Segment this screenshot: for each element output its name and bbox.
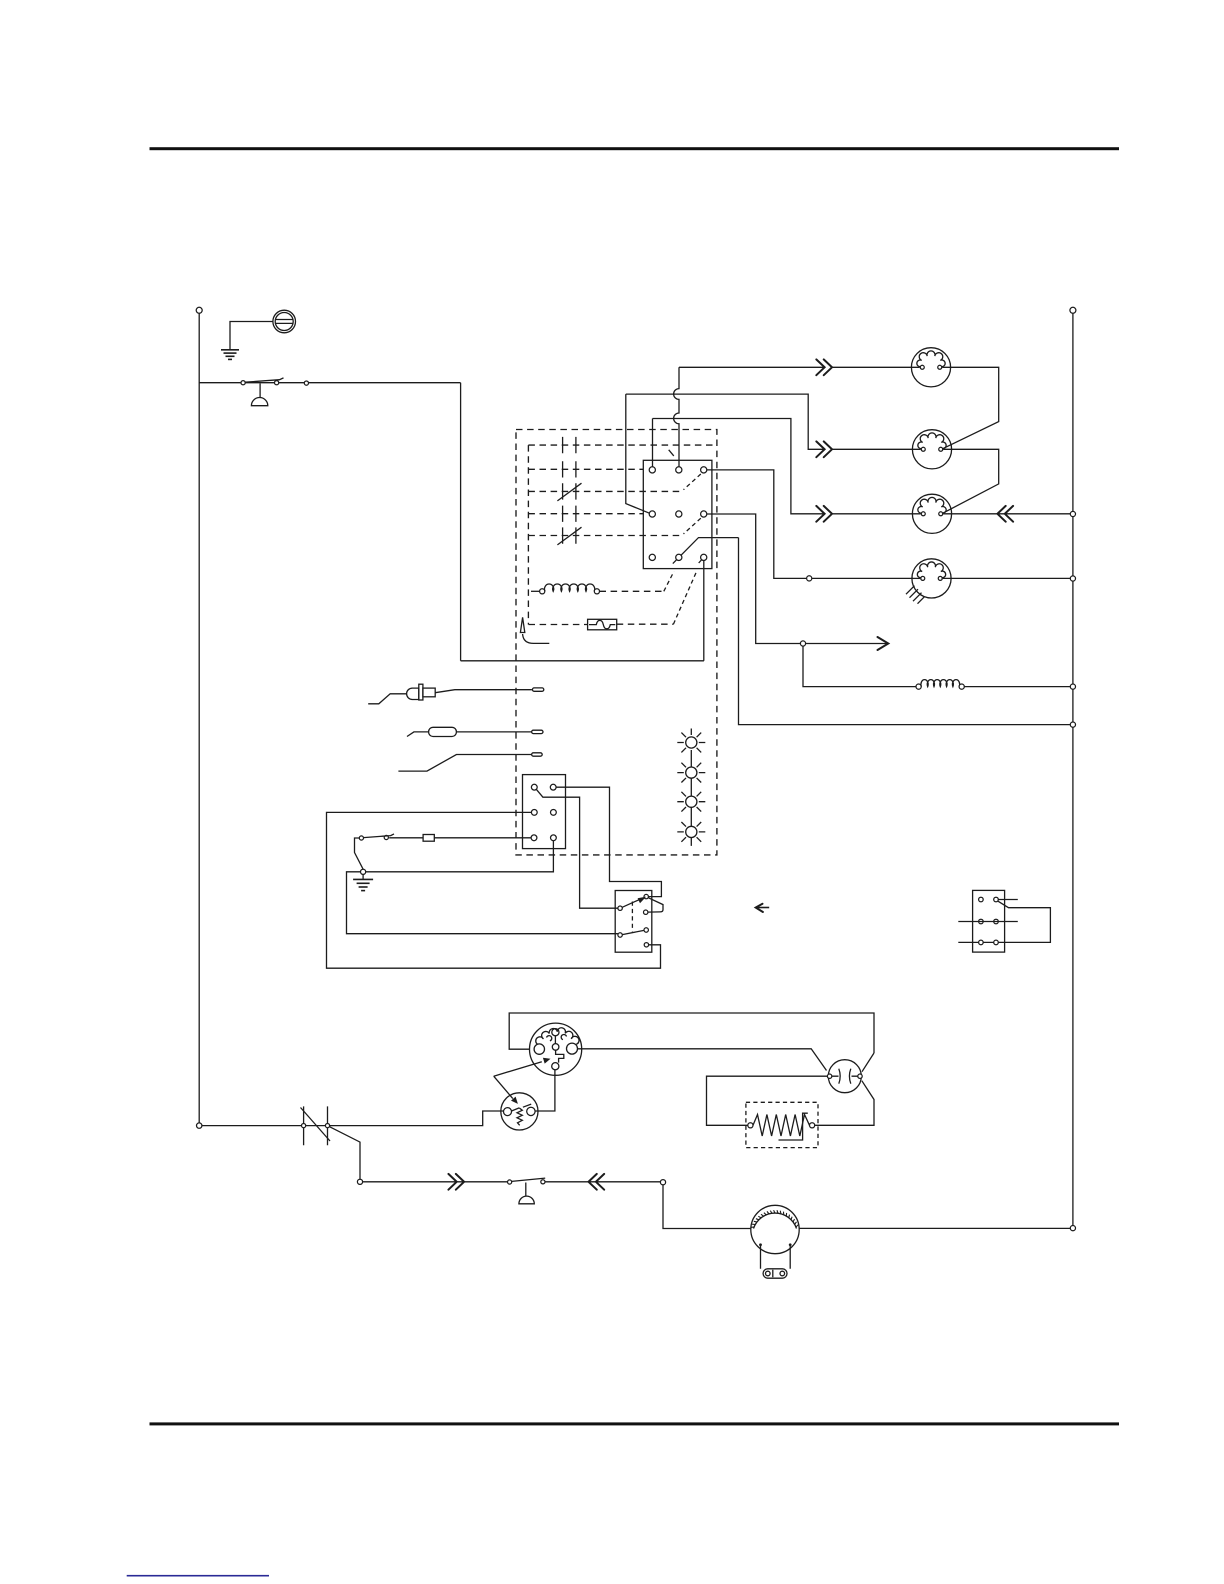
relay pin 4 [649, 511, 655, 517]
bake element zigzag [753, 1115, 810, 1137]
terminal board blade and loop [998, 901, 1050, 942]
wire burner 4 feed to burner [812, 577, 913, 579]
interlock blade [364, 834, 395, 838]
wire left supply bus vertical [198, 313, 200, 1122]
wire pin 1 riser [652, 419, 654, 467]
wire timer cam to thermostat [535, 1070, 555, 1111]
arrow stub to broil element [806, 643, 889, 645]
block pin 4 [551, 810, 557, 816]
interlock contact a [384, 835, 388, 839]
chevron connector on lower run [448, 1174, 464, 1190]
oven lamp (double circle with slot) [273, 310, 296, 333]
dashed enclosure: oven control (outer dashed box) [516, 430, 717, 855]
infinite switch contact block (solid box) [643, 460, 712, 568]
selector contact pair row 3 [563, 483, 576, 499]
ground hatch at burner 4 [906, 586, 925, 604]
wire burner 3 feed run [653, 419, 825, 514]
selector contact pair row 1 [563, 437, 576, 453]
line disconnect slash [301, 1108, 331, 1142]
latch plunger flag [520, 617, 524, 632]
NC slash row 5 [557, 527, 581, 545]
relay coil inductor [916, 680, 964, 690]
blade from block pin 1 with run to door switch [536, 789, 618, 908]
dashed selector row 2 [528, 468, 643, 470]
node right bus bottom at fan motor line [1070, 1226, 1075, 1231]
terminal board pin 3 [979, 919, 984, 924]
selector pointer arrow into thermostat [494, 1076, 513, 1098]
wire pin 8 blade run to right bus lower return [739, 538, 1071, 725]
wire main line L1 to thermostat [202, 1111, 504, 1126]
surface burner unit 3 [912, 494, 951, 533]
dashed blade pin 6 to row 3 [684, 518, 701, 534]
chevron connector burner 1 feed [816, 359, 832, 375]
block pin 5 [531, 835, 537, 841]
wire burner 1 to burner 2 crossover [942, 367, 998, 448]
node on bake feed [800, 641, 805, 646]
indicator lamp 2 [677, 763, 705, 796]
buzzer bell on lower run [519, 1183, 534, 1204]
relay pin 8 [676, 554, 682, 560]
wire pin 3 to burner 4 feed [707, 470, 807, 579]
dashed selector row 4 [528, 513, 643, 515]
direction arrow (left) mid page [756, 907, 770, 909]
wire bell switch to connector node [545, 1181, 660, 1183]
bell switch contact a [508, 1180, 512, 1184]
bell switch contact b [541, 1180, 545, 1184]
wire node down to oven coil line [803, 646, 916, 687]
surface burner unit 4 (grounded) [912, 559, 951, 598]
wire timer to fan relay [578, 1049, 827, 1071]
wire burner 2 feed run [626, 394, 825, 449]
surface burner unit 1 [911, 348, 950, 387]
chevron connector (left pointing) on lower run [589, 1174, 605, 1190]
ground (earth) below oven lamp [221, 350, 239, 360]
node L1 lower end of left bus [197, 1123, 202, 1128]
relay pin 9 [701, 554, 707, 560]
block pin 2 [550, 784, 556, 790]
tail of pin 9 blade [699, 557, 704, 563]
door switch pin R2 [644, 910, 648, 914]
ground node [361, 869, 366, 874]
selector contact pair row 4 [563, 506, 576, 522]
wire top line from left bus to right-hand drop [199, 382, 460, 384]
dashed blade pin 3 to row 2 [684, 474, 701, 490]
selector/terminal block (solid box) [523, 775, 566, 849]
node right bus at burner 3 line [1070, 511, 1075, 516]
latch plunger leader curve [523, 634, 550, 643]
node contact c on top line [304, 381, 308, 385]
wire node down to fan motor [663, 1185, 751, 1229]
chevron connector (left pointing) on burner 3 return [997, 506, 1013, 522]
wire fan relay to bake element right [815, 1081, 874, 1126]
wire coil to right bus [964, 686, 1070, 688]
oven temperature sensor [407, 727, 543, 736]
thermal fuse [588, 619, 617, 630]
auxiliary terminal board (solid box) [973, 890, 1005, 952]
door switch blade 2 [622, 930, 644, 934]
dashed inner left edge of selector switch [527, 445, 529, 624]
chevron connector burner 2 feed [816, 441, 832, 457]
wire top loop of clock circuit [509, 1013, 874, 1053]
node contact b of door interlock switch [275, 381, 279, 385]
wire pin 2 riser to burner1 feed (with crossover hops) [674, 367, 679, 467]
node disconnect b [325, 1124, 329, 1128]
block pin 6 [551, 835, 557, 841]
wire block pin 5 through resistor to interlock [389, 837, 531, 839]
fan motor brush terminals [761, 1245, 791, 1269]
wire pin 4 riser and link [626, 394, 650, 513]
block pin 1 [531, 784, 537, 790]
wire from oven lamp to ground drop [230, 322, 273, 350]
node right bus at lower return line [1070, 722, 1075, 727]
terminal board pin 4 [994, 919, 999, 924]
bottom horizontal rule [150, 1422, 1120, 1425]
wire burner 4 left terminal stub [912, 577, 920, 579]
dashed wire latch coil to relay pin 8 [600, 590, 664, 592]
wire right drop of top line down to oven row [460, 383, 462, 661]
relay pin 7 [649, 554, 655, 560]
door switch dashed linkage [631, 902, 633, 932]
oven thermostat (circle) [501, 1093, 538, 1130]
node disconnect a [302, 1124, 306, 1128]
node connector on lower run [660, 1180, 665, 1185]
dashed selector row 5 [528, 535, 683, 537]
wire right supply bus vertical [1072, 313, 1074, 1225]
latch motor coil on dashed row [531, 584, 600, 594]
fan motor thermal protector capsule [763, 1269, 787, 1278]
bake element dashed enclosure [746, 1102, 818, 1147]
wire branch from disconnect to lower run [330, 1127, 361, 1180]
node L1 top of left supply bus [196, 307, 202, 313]
selector contact pair row 2 [563, 461, 576, 477]
oven igniter (glow bar) [368, 684, 544, 704]
dashed tick above pin 2 [669, 450, 674, 456]
bell (buzzer) hanging from top line [251, 384, 267, 406]
node right bus at burner 4 line [1070, 576, 1075, 581]
wire burner 4 to right bus [943, 577, 1071, 579]
indicator lamp 1 [677, 729, 705, 767]
bell switch blade [512, 1178, 546, 1181]
wire interlock to ground node [355, 838, 364, 869]
resistor on pin 5 line [423, 835, 434, 842]
wire chevron to burner 1 [832, 366, 920, 368]
dashed wire fuse row [529, 624, 588, 626]
wire ground node to block pin 6 [366, 841, 554, 872]
wire fan motor to right bus [799, 1227, 1070, 1229]
wire vertical from relay pin 9 down to y=660.8 [703, 560, 705, 660]
solid blade from pin 8 up-right with tail [673, 538, 739, 564]
wire pin 6 to bake circuit [707, 514, 801, 644]
bake element terminal left [748, 1123, 753, 1128]
door switch pin R1 [644, 894, 648, 898]
chassis ground symbol [353, 874, 373, 890]
convection fan motor (circle with winding) [751, 1205, 799, 1253]
wire right drop into fan relay [862, 1053, 874, 1072]
interlock contact b [359, 836, 363, 840]
bake element terminal right [810, 1123, 815, 1128]
node right bus at latch coil line [1070, 684, 1075, 689]
terminal board mid row wire [958, 921, 1018, 923]
relay pin 1 [649, 467, 655, 473]
chevron connector burner 3 feed [816, 506, 832, 522]
node lower run left [357, 1179, 362, 1184]
relay pin 3 [701, 467, 707, 473]
relay pin 2 [676, 467, 682, 473]
relay pin 5 [676, 511, 682, 517]
terminal board bottom row wire [958, 941, 993, 943]
wire ground node run to door switch pin [347, 872, 618, 934]
wire block pin 3 loop to door switch lower feed [327, 812, 661, 968]
relay pin 6 [701, 511, 707, 517]
NC slash row 3 [557, 483, 581, 501]
dashed wire fuse to relay pin 9 [617, 623, 674, 625]
door switch pin L2 [618, 933, 622, 937]
fan relay (circle with contacts) [827, 1060, 862, 1093]
probe lead wire [398, 753, 542, 771]
terminal board stub from pin 2 [998, 899, 1018, 901]
terminal board pin 6 [994, 940, 999, 945]
wire burner 2 to burner 3 crossover [943, 449, 998, 513]
wire block pin 2 to door switch common [556, 787, 661, 896]
dashed selector row 3 [528, 490, 683, 492]
bake element tap bar [779, 1113, 808, 1140]
line disconnect plug blades [304, 1106, 328, 1145]
door switch hook R1 to R2 [648, 898, 663, 912]
wire chevron to burner 2 [832, 448, 921, 450]
door switch pin L1 [618, 906, 622, 910]
wire lower run to bell switch [363, 1181, 508, 1183]
hyperlink underline bottom-left [127, 1575, 269, 1577]
wire horizontal run y=660.8 to relay pin 9 drop [461, 660, 704, 662]
wire fan relay left to bake element left [707, 1076, 828, 1125]
block pin 3 [531, 810, 537, 816]
terminal board pin 2 [994, 897, 999, 902]
node N top of right supply bus [1070, 307, 1076, 313]
indicator lamp 4 [677, 822, 705, 846]
door switch (solid box) [615, 891, 652, 953]
wire chevron to burner 3 [832, 513, 921, 515]
top horizontal rule [150, 147, 1120, 150]
wire burner 1 feed top run [679, 366, 825, 368]
indicator lamp 3 [677, 792, 705, 827]
door switch pin R3 [644, 928, 648, 932]
node on burner 4 feed [807, 576, 812, 581]
wire burner 3 to right bus [943, 513, 1070, 515]
dashed selector row 1 [528, 444, 717, 446]
door switch blade 1 with arrowhead [622, 899, 641, 908]
selector contact pair row 5 [563, 527, 576, 543]
terminal board pin 1 [979, 897, 984, 902]
clock timer motor (circle) [530, 1023, 582, 1075]
selector pointer arrow into timer [494, 1062, 542, 1077]
door switch pin R4 [644, 943, 648, 947]
switch blade of door interlock [245, 378, 283, 382]
surface burner unit 2 [912, 430, 951, 469]
node contact a of door interlock switch [241, 381, 245, 385]
terminal board pin 5 [979, 940, 984, 945]
